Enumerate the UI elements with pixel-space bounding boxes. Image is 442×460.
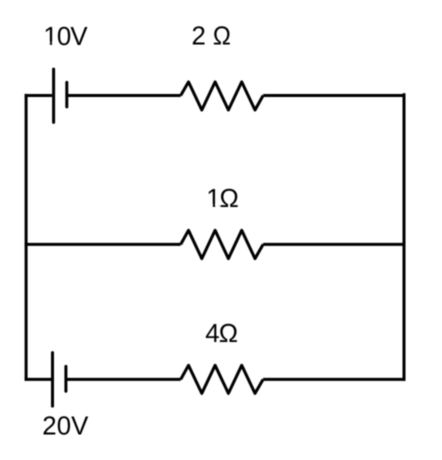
svg-text:4Ω: 4Ω: [205, 320, 238, 348]
svg-text:20V: 20V: [42, 413, 89, 441]
wire bottom branch: corner to battery V2: [25, 378, 51, 381]
svg-text:2: 2: [192, 22, 206, 50]
svg-text:1Ω: 1Ω: [206, 185, 239, 213]
resistor R1 2 ohm zigzag: [181, 82, 263, 110]
wire middle branch: resistor R2 to right rail: [263, 243, 405, 246]
wire middle branch: left rail to resistor R2: [25, 243, 181, 246]
label 1 ohm: mask to remove Liberation "1" foot serif: [206, 205, 212, 208]
wire bottom branch: resistor R3 to right rail: [263, 378, 405, 381]
wire top branch: corner to battery V1: [25, 94, 52, 97]
battery V2 long plate (+): [51, 353, 54, 407]
wire left vertical rail: [25, 94, 28, 381]
resistor R2 1 ohm zigzag: [181, 230, 263, 258]
svg-text:10V: 10V: [43, 23, 88, 51]
battery V1 long plate (+): [52, 69, 55, 122]
battery V1 short plate (-): [65, 82, 68, 107]
resistor R3 4 ohm zigzag: [181, 365, 263, 393]
wire bottom branch: battery to resistor R3: [66, 378, 181, 381]
wire top branch: resistor R1 to right rail: [263, 94, 405, 97]
svg-text:Ω: Ω: [213, 22, 231, 50]
label 10V: mask to remove Liberation "1" foot serif: [44, 42, 50, 45]
wire right vertical rail: [403, 93, 406, 381]
battery V2 short plate (-): [64, 366, 67, 391]
wire top branch: battery to resistor R1: [67, 94, 181, 97]
